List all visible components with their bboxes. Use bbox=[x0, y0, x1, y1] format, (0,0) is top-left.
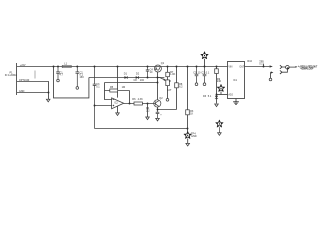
svg-text:R10: R10 bbox=[247, 60, 252, 63]
wire op-amp non-inverting input bbox=[95, 105, 112, 107]
test point star TP4 bbox=[184, 131, 191, 138]
regulator IC1 bbox=[228, 62, 245, 99]
wire x53 drop to lower loop bbox=[54, 67, 89, 98]
transistor Q2 bbox=[154, 100, 161, 107]
wire op-amp V+ vertical bbox=[117, 67, 119, 98]
op-amp feedback top branch bbox=[105, 82, 158, 84]
svg-text:L1: L1 bbox=[64, 62, 67, 66]
diode D2 bbox=[136, 73, 140, 79]
wire IC1 ground pin bbox=[235, 99, 237, 102]
svg-text:D1: D1 bbox=[124, 73, 128, 76]
svg-text:D3: D3 bbox=[203, 95, 207, 98]
wire jack to label bbox=[289, 66, 295, 68]
svg-text:Q1: Q1 bbox=[161, 62, 165, 65]
svg-text:1K: 1K bbox=[190, 113, 193, 116]
svg-text:16V: 16V bbox=[80, 76, 85, 79]
ground bbox=[218, 133, 222, 136]
capacitor C2 bbox=[76, 67, 80, 87]
ground IC1 bbox=[233, 102, 239, 105]
wire return arrow bbox=[271, 71, 274, 73]
capacitor C5 bbox=[195, 67, 199, 84]
ground P1 bbox=[46, 99, 50, 102]
wire main top rail bbox=[17, 66, 228, 68]
connector J2 pin 2 chevron bbox=[280, 70, 282, 74]
node output junction bbox=[263, 64, 265, 67]
svg-text:10T: 10T bbox=[167, 89, 172, 92]
test point star TP3 bbox=[216, 120, 223, 127]
wire TP3 stub bbox=[218, 127, 220, 133]
capacitor C6 at Q2 emitter bbox=[156, 110, 160, 119]
svg-text:IC1: IC1 bbox=[233, 79, 237, 82]
op-amp ground stub bbox=[117, 106, 119, 113]
test point star TP1 bbox=[201, 52, 208, 59]
svg-text:4.3K: 4.3K bbox=[138, 98, 143, 101]
svg-text:IC2: IC2 bbox=[114, 102, 118, 104]
svg-text:C8: C8 bbox=[134, 79, 138, 82]
connector J2 pin 1 chevron bbox=[280, 65, 282, 69]
ground bbox=[116, 113, 120, 116]
wire TP1 to rail bbox=[204, 59, 206, 67]
svg-text:0.1: 0.1 bbox=[96, 86, 100, 89]
ground bbox=[156, 118, 160, 121]
svg-text:GND: GND bbox=[19, 90, 25, 93]
svg-text:0.1: 0.1 bbox=[259, 63, 263, 66]
potentiometer wiper arrow bbox=[158, 78, 164, 80]
jack circle bbox=[286, 66, 290, 70]
wire Q1 base / Q2 collector vertical bbox=[157, 72, 159, 100]
wire diode bias line bbox=[89, 77, 164, 79]
svg-text:R: R bbox=[169, 80, 171, 83]
resistor R5 feedback bbox=[105, 86, 130, 92]
svg-text:1.0K: 1.0K bbox=[170, 73, 175, 76]
svg-text:GND: GND bbox=[191, 135, 197, 138]
svg-text:5.1: 5.1 bbox=[208, 95, 212, 98]
svg-text:OPT1040: OPT1040 bbox=[19, 79, 30, 82]
svg-text:0.1: 0.1 bbox=[206, 72, 210, 75]
svg-text:D2: D2 bbox=[136, 73, 140, 76]
transistor Q1 bbox=[154, 65, 161, 72]
svg-text:+24V: +24V bbox=[20, 64, 26, 67]
wire J2 pin2 loop bbox=[282, 69, 287, 72]
svg-text:4.7: 4.7 bbox=[59, 74, 63, 77]
svg-text:VIN: VIN bbox=[228, 66, 232, 69]
potentiometer R7 bbox=[158, 67, 176, 99]
svg-text:100: 100 bbox=[140, 79, 145, 82]
svg-text:6.2: 6.2 bbox=[179, 86, 183, 89]
svg-text:2.2: 2.2 bbox=[146, 110, 150, 113]
wire feedback right leg to output bbox=[129, 91, 131, 104]
zener diode D3 bbox=[203, 95, 218, 104]
test point star TP2 bbox=[217, 84, 224, 91]
resistor R6 op-amp output bbox=[124, 98, 154, 105]
wire J2 pin1 to jack bbox=[282, 66, 286, 68]
resistor R8 bbox=[175, 67, 183, 110]
wire feedback left leg to inverting input bbox=[105, 83, 112, 100]
svg-text:240: 240 bbox=[217, 80, 222, 83]
inductor L1 bbox=[62, 65, 71, 67]
resistor R9 bbox=[215, 67, 222, 95]
resistor R4 to ground at Q2 base bbox=[146, 104, 150, 118]
resistor R3 sense divider bbox=[186, 67, 194, 132]
svg-text:OUT: OUT bbox=[239, 66, 245, 69]
diode D1 bbox=[124, 73, 128, 79]
ground bbox=[215, 104, 219, 107]
connector P1 body bbox=[16, 63, 18, 95]
net tick mark bbox=[34, 71, 36, 79]
capacitor C7 bbox=[203, 67, 207, 84]
svg-text:+: + bbox=[160, 113, 162, 116]
wire TP2 stub bbox=[220, 92, 222, 95]
wire bottom feedback line bbox=[95, 128, 188, 130]
wire ADJ node bbox=[217, 94, 228, 96]
svg-text:R6: R6 bbox=[132, 98, 136, 101]
wire output arrow bbox=[270, 65, 273, 67]
svg-text:IN 4-20MA: IN 4-20MA bbox=[5, 74, 17, 77]
capacitor C1 bbox=[56, 67, 60, 80]
svg-text:ADJ: ADJ bbox=[228, 93, 233, 96]
wire Q2 emitter to R8 bbox=[158, 107, 177, 110]
ground bbox=[186, 143, 190, 146]
wire P1 pin3 GND bbox=[17, 93, 49, 100]
capacitor C4 bbox=[146, 67, 149, 78]
terminal circle bbox=[269, 78, 272, 81]
wire return terminal bbox=[270, 73, 272, 79]
ground bbox=[146, 117, 150, 120]
svg-text:1M: 1M bbox=[122, 86, 125, 89]
junction dots bbox=[48, 66, 265, 130]
svg-text:4-20MA LOOP: 4-20MA LOOP bbox=[300, 68, 313, 71]
wire P1 pin2 to ground node bbox=[17, 82, 49, 93]
op-amp IC2 bbox=[112, 98, 124, 109]
wire TP4 to ground bbox=[187, 139, 189, 144]
svg-text:Q2: Q2 bbox=[159, 97, 163, 100]
wire regulator output rail bbox=[245, 66, 270, 68]
capacitor C3 bbox=[93, 67, 97, 129]
